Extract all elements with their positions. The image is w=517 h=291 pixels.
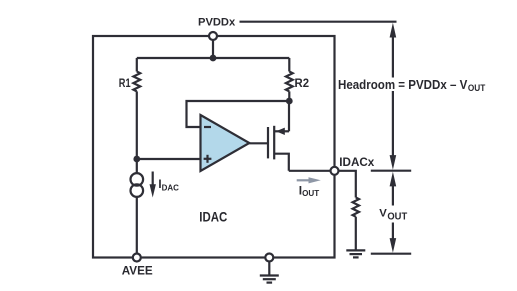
svg-text:V: V — [379, 207, 387, 219]
svg-text:IDACx: IDACx — [339, 157, 375, 169]
svg-text:R1: R1 — [119, 76, 131, 90]
ground — [260, 276, 279, 283]
node ground pin — [265, 254, 273, 262]
svg-text:Headroom = PVDDx – V: Headroom = PVDDx – V — [338, 78, 468, 92]
svg-text:PVDDx: PVDDx — [198, 17, 236, 29]
node AVEE pin — [133, 254, 141, 262]
svg-text:AVEE: AVEE — [122, 264, 153, 278]
wire rail to R2 — [288, 58, 290, 72]
resistor RLOAD — [353, 198, 359, 217]
wire ground pin stem — [268, 262, 270, 276]
resistor R2 — [286, 72, 293, 92]
dimension headroom arrow — [390, 23, 397, 170]
wire R1 to node A — [136, 91, 138, 159]
wire IDACx to load resistor — [339, 171, 356, 198]
node IDACx pin — [331, 167, 339, 175]
wire R2 to feedback node — [288, 91, 290, 101]
resistor R1 — [133, 72, 140, 92]
transistor Q1 — [268, 101, 289, 171]
current source IDAC — [131, 173, 144, 186]
arrow IOUT — [297, 177, 321, 183]
wire node A to op-amp + input — [137, 158, 201, 160]
junction node A — [133, 156, 140, 163]
junction feedback node — [286, 98, 293, 105]
wire supply rail — [137, 57, 289, 59]
ground load — [346, 250, 365, 257]
svg-text:OUT: OUT — [387, 211, 407, 222]
svg-text:R2: R2 — [295, 76, 310, 90]
wire rail to R1 — [136, 58, 138, 72]
wire current source to AVEE pin — [136, 197, 138, 254]
arrow IDAC current direction — [150, 172, 156, 198]
wire load to ground — [355, 217, 357, 250]
wire node A to current source — [136, 159, 138, 173]
tick output level — [371, 253, 411, 255]
junction supply rail — [210, 55, 217, 62]
svg-text:IDAC: IDAC — [199, 209, 227, 224]
dimension VOUT arrow — [390, 172, 397, 253]
wire PVDDx reference line — [240, 21, 397, 23]
IDAC block outline — [93, 36, 335, 258]
wire op-amp output to gate — [249, 142, 267, 144]
wire Q1 source to IDACx pin — [289, 170, 331, 172]
wire feedback node to op-amp - input — [187, 101, 290, 127]
node PVDDx pin — [209, 32, 217, 40]
svg-text:OUT: OUT — [468, 83, 486, 94]
tick IDACx level — [371, 170, 411, 172]
op-amp U1 — [201, 115, 250, 171]
wire PVDDx pin to supply rail — [212, 40, 214, 58]
